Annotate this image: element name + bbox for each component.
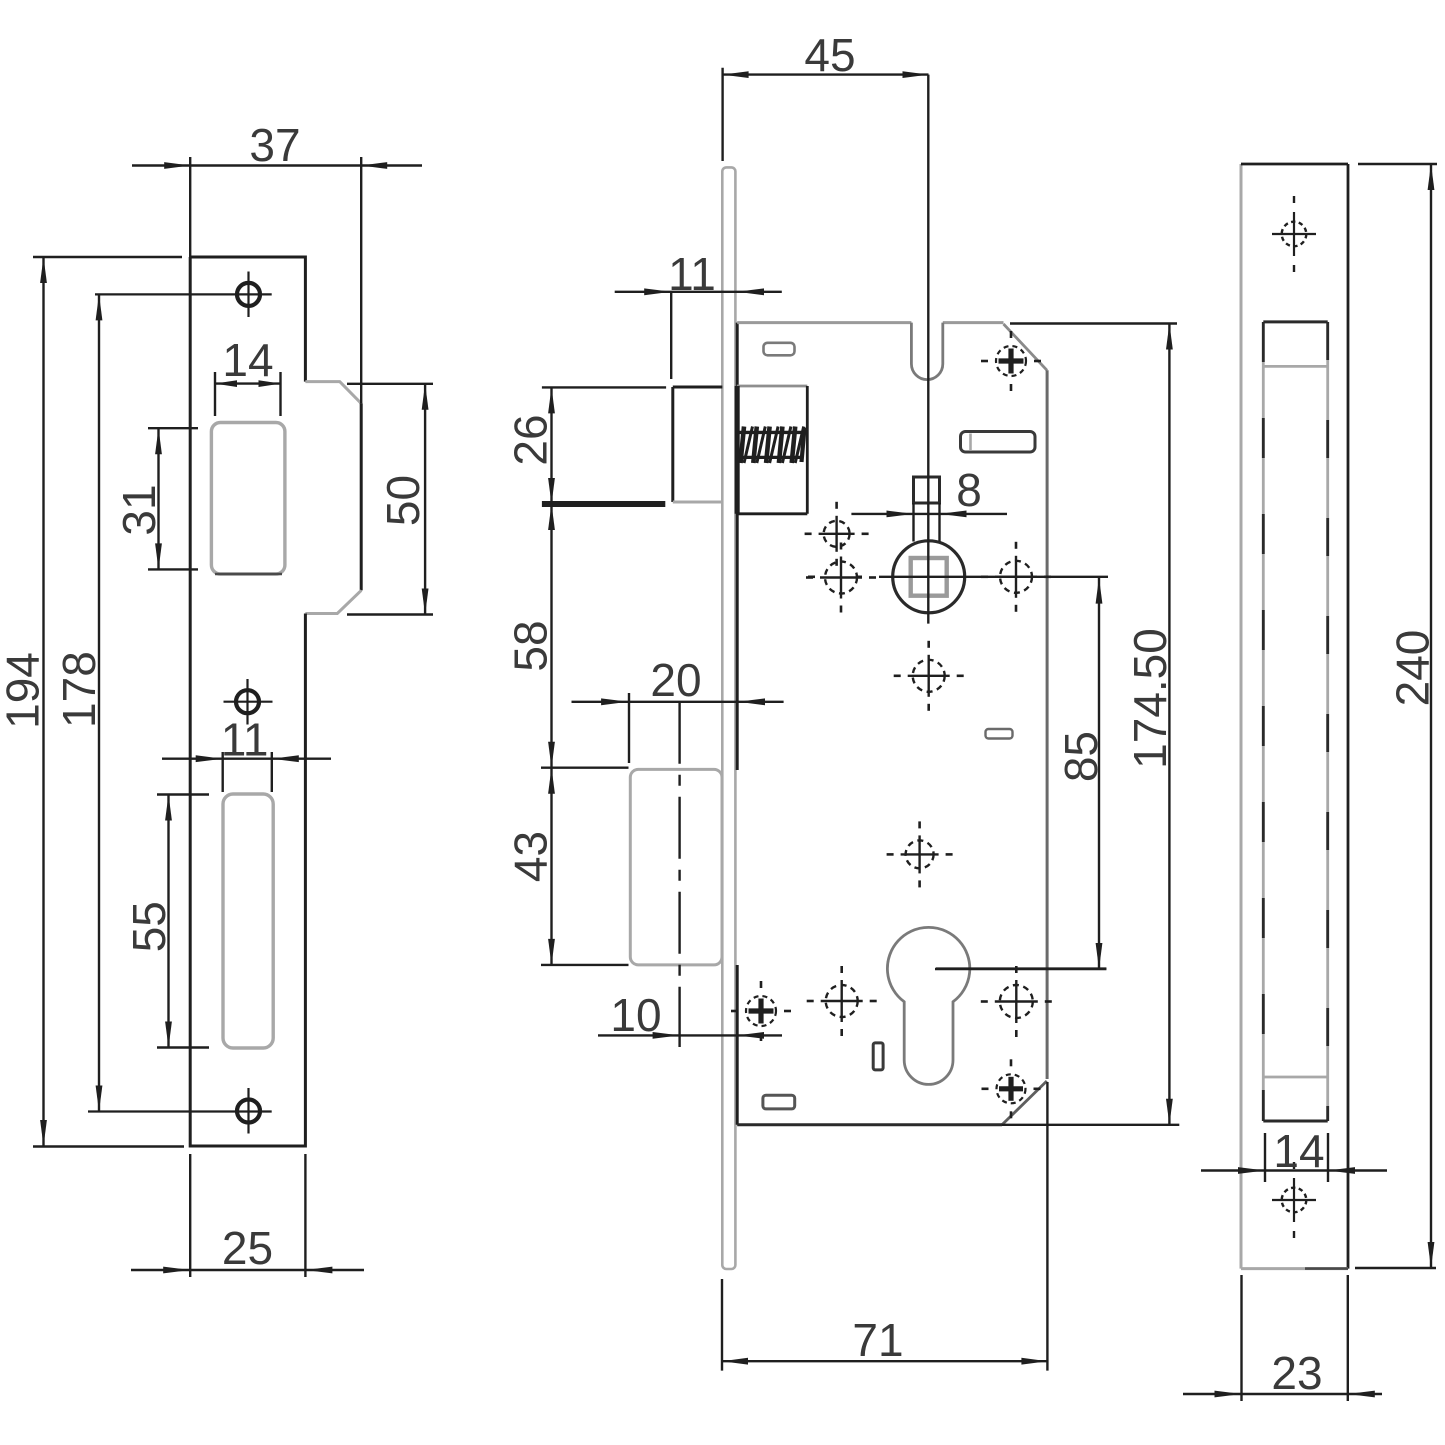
svg-text:11: 11 [221, 713, 269, 765]
svg-text:174.50: 174.50 [1124, 628, 1176, 769]
svg-text:11: 11 [668, 248, 716, 300]
svg-text:240: 240 [1387, 630, 1439, 707]
svg-text:194: 194 [0, 652, 49, 729]
svg-text:10: 10 [610, 989, 661, 1041]
svg-text:85: 85 [1055, 731, 1107, 782]
svg-text:26: 26 [505, 414, 557, 465]
svg-text:23: 23 [1271, 1347, 1322, 1399]
svg-text:14: 14 [1273, 1125, 1324, 1177]
svg-text:58: 58 [505, 620, 557, 671]
svg-text:178: 178 [53, 651, 105, 728]
svg-text:37: 37 [249, 119, 300, 171]
svg-text:50: 50 [377, 475, 429, 526]
svg-text:20: 20 [650, 654, 701, 706]
svg-text:31: 31 [113, 484, 165, 535]
svg-text:25: 25 [222, 1222, 273, 1274]
svg-text:71: 71 [852, 1314, 903, 1366]
svg-text:14: 14 [222, 334, 273, 386]
svg-text:43: 43 [505, 831, 557, 882]
svg-text:45: 45 [804, 29, 855, 81]
svg-text:8: 8 [956, 464, 982, 516]
svg-text:55: 55 [123, 901, 175, 952]
